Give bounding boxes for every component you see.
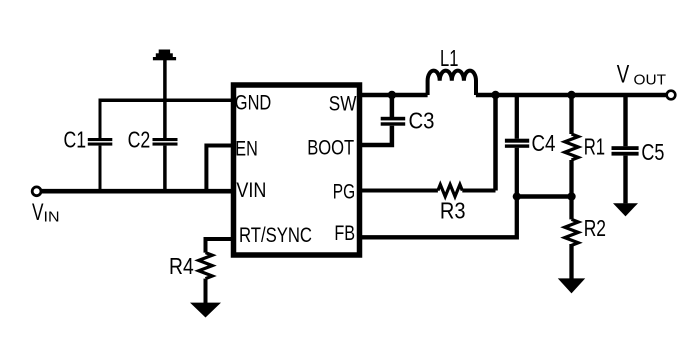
svg-text:C3: C3 (409, 108, 435, 134)
svg-text:VIN: VIN (236, 179, 266, 202)
svg-text:R2: R2 (584, 215, 606, 241)
svg-text:L1: L1 (440, 45, 458, 71)
svg-text:V: V (617, 60, 630, 88)
svg-text:V: V (32, 199, 44, 226)
svg-text:SW: SW (329, 93, 357, 116)
svg-text:RT/SYNC: RT/SYNC (239, 224, 312, 247)
svg-text:C2: C2 (128, 126, 151, 152)
svg-text:IN: IN (44, 209, 60, 226)
svg-text:EN: EN (235, 137, 257, 160)
svg-text:C1: C1 (64, 126, 87, 152)
svg-text:GND: GND (235, 92, 271, 115)
svg-text:OUT: OUT (634, 72, 667, 89)
svg-text:PG: PG (333, 181, 355, 204)
svg-text:C4: C4 (532, 130, 556, 156)
svg-text:R4: R4 (169, 253, 194, 279)
svg-text:C5: C5 (641, 139, 664, 165)
svg-text:R3: R3 (440, 198, 466, 224)
svg-text:R1: R1 (584, 134, 605, 160)
svg-text:FB: FB (334, 222, 355, 245)
svg-text:BOOT: BOOT (307, 137, 354, 160)
